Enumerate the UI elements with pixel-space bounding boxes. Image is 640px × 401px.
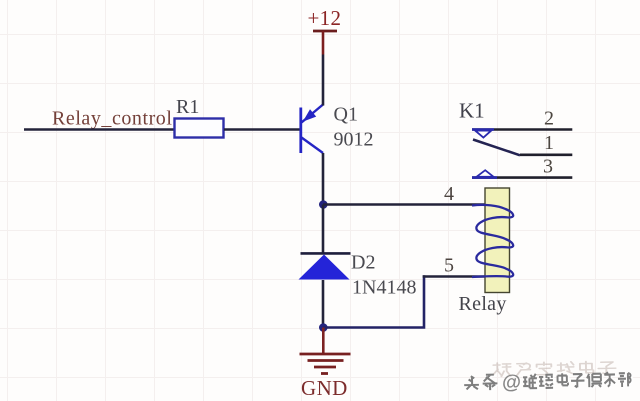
watermark grey text bbox=[464, 369, 631, 394]
NC contact triangle bbox=[475, 131, 491, 138]
svg-text:5: 5 bbox=[444, 255, 454, 277]
svg-text:1: 1 bbox=[544, 132, 554, 154]
pin 1 wire bbox=[520, 154, 572, 157]
svg-text:+12: +12 bbox=[308, 6, 342, 30]
wire: node B to relay pin 5 bbox=[323, 275, 424, 329]
relay K1 contacts bbox=[472, 130, 572, 178]
svg-text:2: 2 bbox=[544, 107, 554, 129]
svg-text:1N4148: 1N4148 bbox=[352, 277, 416, 299]
resistor R1 bbox=[175, 119, 224, 138]
svg-text:9012: 9012 bbox=[334, 129, 374, 151]
pin 2 wire bbox=[472, 128, 572, 131]
svg-text:Q1: Q1 bbox=[334, 104, 358, 126]
svg-text:3: 3 bbox=[543, 155, 553, 177]
wire: node A to relay pin 4 bbox=[323, 203, 486, 206]
ground bbox=[300, 328, 351, 374]
wire: input to R1 bbox=[24, 128, 174, 131]
wire: +12 to emitter bbox=[322, 55, 325, 106]
diode D2 cathode bar bbox=[301, 252, 351, 255]
node B junction bbox=[319, 323, 328, 332]
wire: R1 to Q1 base bbox=[224, 128, 300, 131]
watermark faint text bbox=[493, 361, 616, 377]
transistor Q1 (PNP 9012) bbox=[301, 105, 323, 154]
watermark white emboss bbox=[466, 371, 633, 396]
relay K1 coil winding bbox=[472, 205, 513, 277]
svg-text:@: @ bbox=[502, 371, 521, 393]
power +12 bbox=[308, 6, 342, 55]
svg-text:GND: GND bbox=[301, 376, 348, 400]
wire: diode to node B bbox=[322, 280, 325, 328]
diode D2 bbox=[299, 255, 350, 280]
relay K1 coil body bbox=[485, 188, 510, 293]
svg-text:Relay: Relay bbox=[459, 293, 507, 315]
pin 3 wire bbox=[472, 176, 572, 179]
svg-text:Relay_control: Relay_control bbox=[52, 108, 172, 130]
svg-text:D2: D2 bbox=[351, 252, 375, 274]
svg-text:4: 4 bbox=[444, 183, 454, 205]
NO contact triangle bbox=[477, 170, 494, 177]
svg-text:R1: R1 bbox=[176, 96, 199, 118]
wire: collector down bbox=[322, 153, 325, 205]
wire: node A to diode bbox=[322, 205, 325, 254]
common arm pin 1 bbox=[473, 140, 520, 156]
svg-text:K1: K1 bbox=[459, 99, 485, 123]
node A junction bbox=[319, 200, 328, 209]
